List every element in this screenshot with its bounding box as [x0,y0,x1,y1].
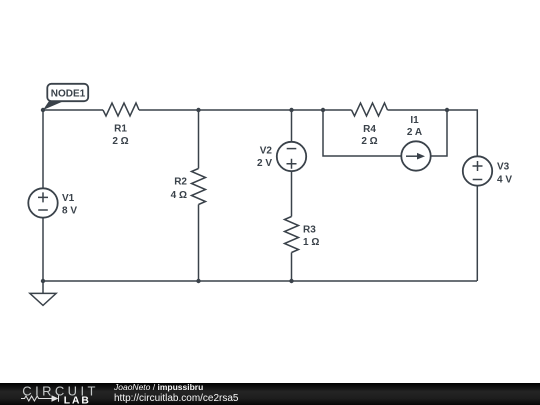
voltage source V2 circle [277,142,306,171]
label V3 value [497,162,512,186]
V3 minus sign [473,179,483,181]
svg-text:2 Ω: 2 Ω [361,136,377,147]
current source I1 circle [401,141,430,170]
wire V2 junction to loop junction [292,109,324,111]
label R1 value [112,124,128,148]
node loop left junction dot [321,108,325,112]
node NODE1 label tail [43,101,64,110]
svg-text:2 A: 2 A [407,127,422,138]
voltage source V3 circle [463,156,492,185]
svg-text:4 Ω: 4 Ω [171,190,187,201]
node R2 top junction dot [196,108,200,112]
wire V2 top lead [291,110,293,142]
footer credit text [114,383,239,405]
I1 arrowhead [417,153,425,160]
V1 plus sign [38,192,48,202]
svg-text:2 Ω: 2 Ω [112,136,128,147]
node loop right junction dot [445,108,449,112]
wire loop left side [323,110,402,156]
voltage source V1 circle [28,188,57,217]
node R2 bottom junction dot [196,279,200,283]
svg-text:1 Ω: 1 Ω [303,237,319,248]
footer bar [0,383,540,405]
wire V1 to ground junction [42,218,44,282]
node V2 top junction dot [289,108,293,112]
label R2 value [171,177,188,202]
wire R2 bottom lead [198,205,200,282]
svg-text:V1: V1 [62,193,75,204]
node NODE1 junction dot [41,108,45,112]
svg-text:V3: V3 [497,162,510,173]
wire I1 to loop right side [431,110,448,156]
wire V2 to R3 [291,171,293,217]
ground symbol triangle [30,293,56,305]
svg-text:2 V: 2 V [257,158,272,169]
wire R3 bottom lead [291,253,293,282]
wire R2 top lead [198,110,200,169]
wire R2 junction to V2 junction [199,109,292,111]
ground stub [42,281,44,293]
V2 plus sign [287,159,297,169]
svg-text:I1: I1 [410,115,419,126]
V3 plus sign [473,161,483,171]
wire left rail top (node1 to V1) [42,110,44,189]
resistor R4 [352,103,388,116]
wire bottom rail right [292,280,478,282]
svg-text:R1: R1 [114,124,127,135]
label R4 value [361,124,377,147]
svg-text:R4: R4 [363,124,376,135]
svg-text:NODE1: NODE1 [51,89,86,100]
wire R1 to R2 top junction [139,109,199,111]
I1 arrow [406,155,418,157]
node R3 bottom junction dot [289,279,293,283]
svg-text:R2: R2 [174,177,187,188]
wire top-left from node1 to R1 [43,109,103,111]
wire bottom rail left [43,280,199,282]
label V1 value [62,193,77,217]
resistor R3 [285,217,299,253]
wire bottom rail middle [199,280,292,282]
resistor R2 [192,169,206,205]
svg-text:LAB: LAB [64,396,91,405]
wire loop junction to R4 [323,109,352,111]
CircuitLab logo [0,382,100,405]
svg-text:4 V: 4 V [497,174,512,185]
node ground junction dot [41,279,45,283]
label R3 value [303,225,319,249]
V2 minus sign [287,148,297,150]
wire right junction to V3 corner [447,110,477,157]
label I1 value [407,115,422,138]
svg-text:V2: V2 [260,146,273,157]
svg-text:R3: R3 [303,225,316,236]
resistor R1 [103,103,139,116]
wire V3 bottom lead [476,186,478,282]
wire R4 to right junction [388,109,448,111]
label V2 value [257,146,272,170]
svg-text:8 V: 8 V [62,206,77,217]
node NODE1 label bubble [47,84,88,101]
V1 minus sign [38,209,48,211]
